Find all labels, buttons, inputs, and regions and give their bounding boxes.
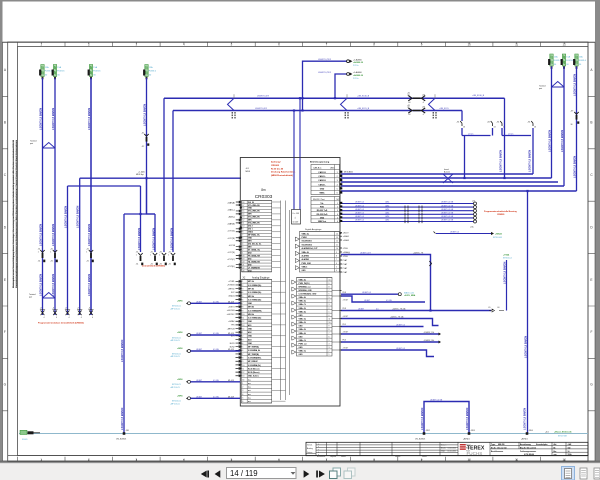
svg-text:GND: GND [302, 270, 307, 272]
svg-text:1: 1 [242, 332, 243, 334]
svg-text:16: 16 [568, 451, 570, 453]
svg-text:+GSA(s): +GSA(s) [343, 251, 351, 254]
svg-text:3: 3 [242, 288, 243, 290]
svg-text:0-10V/MBA (5k): 0-10V/MBA (5k) [248, 364, 261, 367]
svg-text:2: 2 [242, 336, 243, 338]
svg-text:LSGNT 0,5: LSGNT 0,5 [355, 205, 364, 207]
destination arrow feeder y74 [347, 73, 350, 76]
svg-text:+KY7(C): +KY7(C) [227, 259, 235, 261]
destination arrow feeder y61 [347, 60, 350, 63]
svg-text:LSGNT 0,5: LSGNT 0,5 [355, 213, 364, 215]
svg-text:Weitergabe sowie Vervielfältig: Weitergabe sowie Vervielfältigung dieser… [12, 139, 15, 288]
svg-text:VBBo 4L: VBBo 4L [302, 232, 310, 235]
AGND junction -W52 [423, 432, 426, 435]
crossover X at x448 [443, 174, 453, 183]
svg-text:6.790.389.06: 6.790.389.06 [524, 454, 534, 456]
svg-text:12: 12 [242, 372, 244, 374]
junction feeder y61 on bus A [301, 97, 303, 99]
wire x506.5 vertical [506, 260, 508, 311]
svg-text:PU5: PU5 [343, 324, 346, 326]
supply connector G2 top right [562, 54, 565, 66]
wire from bus y186 down at x67.5 [67, 186, 69, 315]
svg-text:+UB_Kl.30_B: +UB_Kl.30_B [472, 95, 485, 97]
svg-text:F03/3.6: F03/3.6 [93, 71, 101, 73]
svg-text:0-10V/MBA(5V)_GND: 0-10V/MBA(5V)_GND [299, 293, 317, 296]
svg-text:-16: -16 [497, 307, 500, 309]
wire S3 stub [501, 128, 503, 136]
svg-text:15A: 15A [45, 66, 49, 69]
svg-text:LSGNT 0,5 BN/GN: LSGNT 0,5 BN/GN [120, 340, 124, 362]
svg-text:n.c.: n.c. [248, 379, 252, 381]
svg-text:+24VDC_TS 13k: +24VDC_TS 13k [390, 316, 404, 318]
svg-text:Aussen: Aussen [444, 170, 450, 173]
svg-text:ALARM2: ALARM2 [302, 254, 310, 257]
svg-text:F03/3.6: F03/3.6 [554, 60, 562, 62]
svg-text:11: 11 [515, 43, 518, 47]
svg-text:-X8: -X8 [422, 94, 425, 96]
svg-text:13: 13 [242, 376, 244, 378]
svg-text:1: 1 [136, 255, 137, 257]
svg-text:-4+A0800: -4+A0800 [353, 58, 363, 61]
svg-text:CAN-Bus: CAN-Bus [313, 166, 321, 169]
svg-text:31/GD: 31/GD [22, 439, 28, 441]
fuse/supply connector F1 top [41, 65, 44, 77]
svg-text:LSGNT 0,5 BN/GN: LSGNT 0,5 BN/GN [63, 206, 67, 228]
svg-text:MF4 0k: MF4 0k [248, 313, 254, 316]
svg-text:14: 14 [242, 379, 244, 381]
svg-text:MF_TEMP(B): MF_TEMP(B) [248, 354, 259, 356]
svg-text:-16: -16 [408, 114, 411, 116]
svg-text:12: 12 [563, 457, 567, 461]
bus y186 [68, 185, 141, 187]
bus pair crossover at x231 [228, 98, 235, 110]
left letter margin line [2, 42, 4, 461]
svg-text:MF8: MF8 [248, 214, 252, 216]
table B to edge stubs [332, 291, 340, 351]
svg-text:MDK: MDK [246, 171, 251, 173]
svg-text:TA_GN/BL/GN: TA_GN/BL/GN [248, 260, 260, 263]
svg-text:DIG_IN: DIG_IN [248, 202, 255, 204]
svg-text:LSGNT 0,5 BN/GN: LSGNT 0,5 BN/GN [38, 108, 42, 130]
svg-text:GND_Schirm: GND_Schirm [248, 376, 259, 378]
svg-text:Datum: Datum [395, 455, 401, 458]
svg-text:10: 10 [467, 43, 471, 47]
svg-text:+MF4: +MF4 [177, 394, 183, 397]
svg-text:0,5 GN: 0,5 GN [213, 301, 219, 303]
svg-text:8m: 8m [261, 188, 266, 192]
svg-text:+BAT(-): +BAT(-) [228, 216, 235, 219]
svg-text:LSGNT: LSGNT [196, 301, 203, 303]
svg-text:LSGNT 0,5 BN/GN: LSGNT 0,5 BN/GN [142, 104, 146, 126]
svg-text:PU3: PU3 [343, 340, 346, 342]
svg-text:LSGNT 0,5 BN/GN: LSGNT 0,5 BN/GN [87, 224, 91, 246]
wire S2 stub [492, 128, 494, 136]
supply wire into regulator from bus A [299, 98, 301, 209]
svg-text:-W14: -W14 [385, 202, 389, 204]
connector plug row2 x=140.5 [138, 253, 142, 255]
RS-232 wire 6 [341, 221, 473, 223]
AGND junction -W53 [468, 432, 471, 435]
controller left pin table lower [241, 280, 271, 404]
svg-text:13: 13 [242, 325, 244, 327]
wire drop x155 [154, 214, 156, 252]
svg-text:AD2: AD2 [248, 331, 252, 334]
svg-text:-S1: -S1 [487, 122, 490, 124]
dig out wire y326 [341, 326, 424, 328]
CAN line 4 y186 [341, 185, 564, 187]
svg-text:15A: 15A [149, 66, 153, 69]
svg-text:+MF 2.B-C5: +MF 2.B-C5 [170, 404, 180, 406]
svg-text:0-10 V/MBA (5k): 0-10 V/MBA (5k) [248, 298, 262, 301]
DA converter triangles [292, 237, 300, 354]
svg-text:ALARM/DIG4_OUT: ALARM/DIG4_OUT [302, 247, 319, 250]
svg-text:4: 4 [69, 317, 70, 319]
svg-text:+MF 2.B-C5: +MF 2.B-C5 [170, 356, 180, 358]
svg-text:+VOUT: +VOUT [343, 332, 349, 334]
svg-text:6: 6 [337, 193, 338, 195]
next view icon (disabled) [348, 468, 356, 476]
svg-text:-15: -15 [407, 107, 410, 109]
svg-text:1: 1 [38, 252, 39, 254]
bottom ruler ticks [18, 457, 589, 462]
svg-text:MF2: MF2 [248, 246, 252, 248]
svg-text:-W14: -W14 [385, 209, 389, 211]
svg-text:+KY8/1B: +KY8/1B [227, 285, 235, 287]
svg-text:AN1: AN1 [248, 257, 252, 260]
svg-text:0,5 GN: 0,5 GN [213, 349, 219, 351]
svg-text:1: 1 [242, 252, 243, 254]
svg-text:Achtung!: Achtung! [271, 161, 281, 164]
svg-text:MF8/MBA_GND: MF8/MBA_GND [299, 289, 313, 292]
svg-text:-X1: -X1 [142, 132, 145, 134]
svg-text:Programmierschnittstelle Bosni: Programmierschnittstelle Bosning [484, 210, 517, 213]
svg-text:Bezeichnung:: Bezeichnung: [520, 444, 532, 446]
wire G3 vertical [576, 67, 578, 192]
svg-text:MF3 8k: MF3 8k [248, 307, 254, 309]
svg-text:1: 1 [242, 281, 243, 283]
svg-text:MF GN/AL_BL: MF GN/AL_BL [248, 234, 261, 237]
svg-text:-W54: -W54 [529, 430, 533, 432]
svg-text:-5: -5 [423, 114, 425, 116]
wire from bus y178 down at x79.7 [79, 178, 81, 315]
svg-text:3: 3 [242, 390, 243, 392]
svg-text:AN3: AN3 [248, 251, 252, 254]
junction busA drop [503, 177, 505, 179]
connector -X4 socket on wire x=79.7 [78, 311, 82, 316]
controller inner rail 1 [280, 201, 282, 401]
dig out wire y318 [341, 319, 439, 326]
CAN line 1 y174 [341, 173, 533, 175]
svg-text:FUCHS: FUCHS [467, 451, 483, 456]
reg feed inside 1 [293, 158, 295, 210]
controller U1 CR0303 outline [240, 158, 340, 407]
svg-text:LSGNT 0,5: LSGNT 0,5 [450, 231, 459, 233]
svg-text:MF_TEMP(A): MF_TEMP(A) [248, 346, 259, 349]
viewer surround grey right [595, 0, 600, 462]
page bottom grey band [0, 461, 600, 464]
svg-text:LSGNT: LSGNT [196, 380, 203, 382]
junction x300 bus A [299, 97, 301, 99]
top ruler column ticks [18, 42, 589, 47]
supply wire into regulator from bus B [293, 111, 295, 210]
svg-text:4: 4 [242, 292, 243, 294]
controller right pin stubs [340, 174, 342, 350]
svg-text:LSGNT 0,5: LSGNT 0,5 [355, 216, 364, 218]
svg-text:13: 13 [463, 127, 465, 129]
svg-text:8: 8 [242, 307, 243, 309]
svg-text:LSGNT 0,5 BN/GN: LSGNT 0,5 BN/GN [120, 408, 124, 430]
svg-text:-AGND1: -AGND1 [521, 437, 528, 440]
svg-text:LT_GN/BN/GN: LT_GN/BN/GN [248, 267, 260, 269]
connector -X4 socket on wire x=55 [53, 311, 57, 316]
svg-text:+MS24: +MS24 [495, 233, 502, 236]
junction at (140.5,214) [139, 213, 141, 215]
junction x430.5 on y310.5 [429, 309, 431, 311]
svg-text:+A0800-30: +A0800-30 [353, 74, 364, 77]
svg-text:-4x1: -4x1 [545, 431, 549, 433]
wire G1 vertical [551, 67, 553, 179]
svg-text:Programmiersteckdose Zentralel: Programmiersteckdose Zentralelektrik (CR… [38, 322, 84, 325]
svg-text:190 -AGND1: 190 -AGND1 [116, 437, 126, 440]
svg-text:-X1: -X1 [136, 252, 139, 254]
svg-text:LSGNT 0,5 GN: LSGNT 0,5 GN [430, 399, 443, 401]
connector pin pair bus A [408, 96, 412, 101]
svg-text:/BT2.B-C5: /BT2.B-C5 [172, 306, 181, 308]
svg-text:Datum: Datum [307, 451, 313, 454]
svg-text:VBB Test: VBB Test [318, 220, 327, 223]
svg-text:13: 13 [534, 127, 536, 129]
svg-text:+KY8/1: +KY8/1 [228, 281, 234, 283]
svg-text:F03/3.6: F03/3.6 [566, 60, 574, 62]
svg-text:LSGNT 0,5 BN/GN: LSGNT 0,5 BN/GN [170, 228, 174, 250]
svg-text:+G/KY4B: +G/KY4B [227, 310, 236, 312]
svg-text:+UB_Kl.15_B: +UB_Kl.15_B [357, 108, 370, 110]
CAN line 3 y182 [341, 181, 558, 183]
svg-text:LSGNT 0,5 R: LSGNT 0,5 R [360, 252, 371, 254]
svg-text:Ø1.019: Ø1.019 [228, 380, 234, 382]
chain rail 1 [462, 135, 491, 137]
contact -S4 at x533 [531, 121, 533, 126]
svg-text:VBBo 4L: VBBo 4L [299, 278, 307, 281]
svg-text:ALARM3: ALARM3 [302, 258, 310, 261]
contact -S3 at x502 [500, 121, 502, 126]
svg-text:1: 1 [86, 252, 87, 254]
svg-text:-W14: -W14 [385, 220, 389, 222]
svg-text:B: B [4, 121, 6, 125]
RS-232 wire 2 [341, 206, 473, 208]
svg-text:KL30 (Masse): KL30 (Masse) [248, 372, 260, 374]
svg-text:F: F [591, 330, 593, 334]
fuse/supply connector F4 top [145, 65, 148, 77]
TEREX logo [460, 444, 466, 445]
svg-text:6: 6 [242, 299, 243, 301]
AGND junction -W54 [526, 432, 529, 435]
svg-text:GND2: GND2 [248, 232, 253, 234]
svg-text:LSGNT 0,5 BN/GN: LSGNT 0,5 BN/GN [465, 408, 469, 430]
svg-text:Betriebsspannung: Betriebsspannung [310, 161, 330, 164]
svg-text:Zuwiderhandlungen verpflichten: Zuwiderhandlungen verpflichten zu Schade… [15, 139, 18, 288]
svg-text:Bestellnummer: Bestellnummer [491, 450, 504, 453]
svg-text:160: 160 [568, 448, 571, 450]
svg-text:/5T.2a: /5T.2a [353, 78, 359, 80]
svg-text:+KY7(8): +KY7(8) [227, 238, 235, 240]
svg-text:+MF 2.B-C5: +MF 2.B-C5 [170, 309, 180, 311]
svg-text:4: 4 [242, 343, 243, 345]
svg-text:-X1: -X1 [86, 261, 89, 263]
svg-text:Zeichnungsnummer: Zeichnungsnummer [520, 451, 536, 453]
svg-text:/BT9.D-B3: /BT9.D-B3 [493, 237, 502, 239]
svg-text:+A0800-30: +A0800-30 [353, 61, 364, 64]
pin symbols on y310 at x489-504 [489, 309, 504, 312]
svg-text:13.01.2005: 13.01.2005 [448, 448, 457, 450]
junction x527 on y191 [526, 190, 528, 192]
svg-text:CR0303: CR0303 [271, 165, 280, 167]
svg-text:PU8: PU8 [343, 308, 346, 310]
svg-text:Ø1.019: Ø1.019 [228, 333, 234, 335]
svg-text:-W14: -W14 [385, 216, 389, 218]
svg-text:17: 17 [242, 205, 244, 207]
svg-text:BLR: BLR [231, 336, 235, 338]
svg-text:-5: -5 [423, 102, 425, 104]
svg-text:KL30 (Masse): KL30 (Masse) [248, 368, 260, 370]
svg-text:n.c.: n.c. [248, 383, 252, 385]
svg-text:Bearbeiter: Bearbeiter [317, 455, 326, 458]
svg-text:-V55U: -V55U [343, 256, 349, 258]
svg-text:LSGNT: LSGNT [196, 349, 203, 351]
twisted pair G1-G2 [552, 82, 565, 88]
connector -X4 socket on wire x=67.5 [66, 311, 70, 316]
bus A horizontal y98 [164, 97, 505, 99]
svg-text:+Masse-Elektronik: +Masse-Elektronik [554, 430, 573, 433]
svg-text:4: 4 [242, 394, 243, 396]
svg-text:+KY7(5): +KY7(5) [227, 231, 235, 233]
controller inner rail 2 [285, 201, 287, 401]
svg-text:MF1 0k: MF1 0k [248, 281, 254, 283]
svg-text:-X1: -X1 [168, 252, 171, 254]
svg-text:12: 12 [242, 220, 244, 222]
svg-text:-Innen: -Innen [508, 133, 513, 135]
svg-text:-W6: -W6 [126, 430, 129, 432]
svg-text:4: 4 [242, 243, 243, 245]
svg-text:a: a [318, 446, 319, 448]
disclaimer underlay bars [13, 140, 14, 288]
svg-text:11: 11 [242, 223, 244, 225]
svg-text:4: 4 [81, 317, 82, 319]
svg-text:LSGNT 0,5: LSGNT 0,5 [355, 209, 364, 211]
svg-text:1: 1 [242, 383, 243, 385]
svg-text:von: von [554, 454, 557, 456]
svg-text:-X1: -X1 [50, 261, 53, 263]
feeder wire y61 from bus A/B [303, 61, 347, 110]
svg-text:Analog Eingänge: Analog Eingänge [252, 276, 270, 279]
svg-text:0,5 GN: 0,5 GN [213, 396, 219, 398]
svg-text:/BA15.C-B2: /BA15.C-B2 [404, 291, 414, 294]
svg-text:0-10V/MBA/MSL: 0-10V/MBA/MSL [248, 357, 262, 360]
svg-text:LSGNT 0,5 GN: LSGNT 0,5 GN [441, 202, 454, 204]
voltage regulator box [292, 210, 301, 225]
bus A drop at x504.5 [504, 98, 506, 178]
svg-text:+BAT(A): +BAT(A) [227, 201, 235, 204]
svg-text:Type:: Type: [491, 444, 496, 446]
wire F3 vertical [90, 78, 92, 315]
svg-text:-AGND1: -AGND1 [463, 437, 470, 440]
supply connector G3 top right [575, 54, 578, 66]
svg-text:0,5: 0,5 [376, 308, 379, 310]
svg-text:n.c.: n.c. [248, 387, 252, 389]
svg-text:F03/3.6: F03/3.6 [149, 71, 157, 73]
wire x527 down to AGND rail [527, 191, 529, 434]
svg-text:Gepr.: Gepr. [441, 450, 446, 453]
row divider ticks [3, 96, 596, 410]
chain rail 2 [502, 135, 531, 137]
viewer surround grey top [0, 0, 600, 2]
svg-text:(MDK/Zentralelektrik): (MDK/Zentralelektrik) [271, 174, 293, 177]
svg-text:-S1: -S1 [528, 122, 531, 124]
wire x124 down to AGND rail [123, 214, 125, 434]
connector -X1 plug on wire x=55 [53, 250, 57, 252]
svg-text:n.c.: n.c. [248, 397, 252, 399]
svg-text:0-10 V/MBA (5k): 0-10 V/MBA (5k) [248, 284, 262, 287]
svg-text:LSGNT 0,5 BN/GN: LSGNT 0,5 BN/GN [38, 274, 42, 296]
svg-text:/5T.2a: /5T.2a [353, 65, 359, 67]
svg-text:16: 16 [242, 208, 244, 210]
svg-text:E: E [590, 278, 592, 282]
svg-text:CR0303: CR0303 [255, 194, 273, 200]
svg-text:18: 18 [242, 202, 244, 204]
AGND rail (light blue) [19, 433, 588, 435]
svg-text:-X1: -X1 [38, 261, 41, 263]
ground U wire x424-469 [424, 402, 469, 434]
controller left pin arrows upper [236, 201, 241, 269]
svg-text:LSGNT: LSGNT [196, 333, 203, 335]
svg-text:13: 13 [242, 217, 244, 219]
svg-text:LSGNT 0,5: LSGNT 0,5 [362, 292, 371, 294]
svg-text:-XGND2_13k: -XGND2_13k [424, 332, 435, 334]
svg-text:Zentralelektrik (CR0503): Zentralelektrik (CR0503) [142, 265, 165, 268]
svg-text:Digital Ausgänge: Digital Ausgänge [305, 228, 322, 231]
svg-text:9: 9 [242, 361, 243, 363]
wire from F1 down [42, 78, 44, 315]
svg-text:LSGNT 0,5: LSGNT 0,5 [355, 220, 364, 222]
svg-text:+MF4: +MF4 [177, 299, 183, 302]
title block outline [306, 442, 588, 455]
svg-text:ST2+VBN+GN: ST2+VBN+GN [248, 211, 260, 213]
svg-text:AN0: AN0 [248, 263, 252, 266]
svg-text:LSGNT 0,5 BN/GN: LSGNT 0,5 BN/GN [547, 130, 551, 152]
svg-text:LSGNT 0,5 GN: LSGNT 0,5 GN [441, 213, 454, 215]
svg-text:UB01: UB01 [330, 167, 335, 169]
svg-text:DIG 1: DIG 1 [248, 229, 253, 231]
title block right cell [552, 442, 588, 455]
svg-text:15A: 15A [566, 56, 570, 59]
svg-text:10: 10 [242, 226, 244, 228]
svg-text:VBBo 4L: VBBo 4L [299, 300, 307, 303]
svg-text:5: 5 [242, 241, 243, 243]
svg-text:LSGNT: LSGNT [364, 300, 371, 302]
svg-text:Ø1.019: Ø1.019 [228, 301, 234, 303]
toolbar background [0, 463, 600, 480]
AGND rail left connector [20, 430, 27, 434]
prev view icon [333, 468, 341, 476]
ruler top line [3, 41, 596, 43]
RS-232 inline pin pairs [405, 206, 422, 224]
svg-text:6: 6 [242, 401, 243, 403]
svg-text:+GSA3: +GSA3 [343, 239, 349, 242]
svg-text:7: 7 [242, 235, 243, 237]
svg-text:10 10V: 10 10V [293, 222, 299, 224]
svg-text:23: 23 [242, 270, 244, 272]
svg-text:18: 18 [242, 255, 244, 257]
